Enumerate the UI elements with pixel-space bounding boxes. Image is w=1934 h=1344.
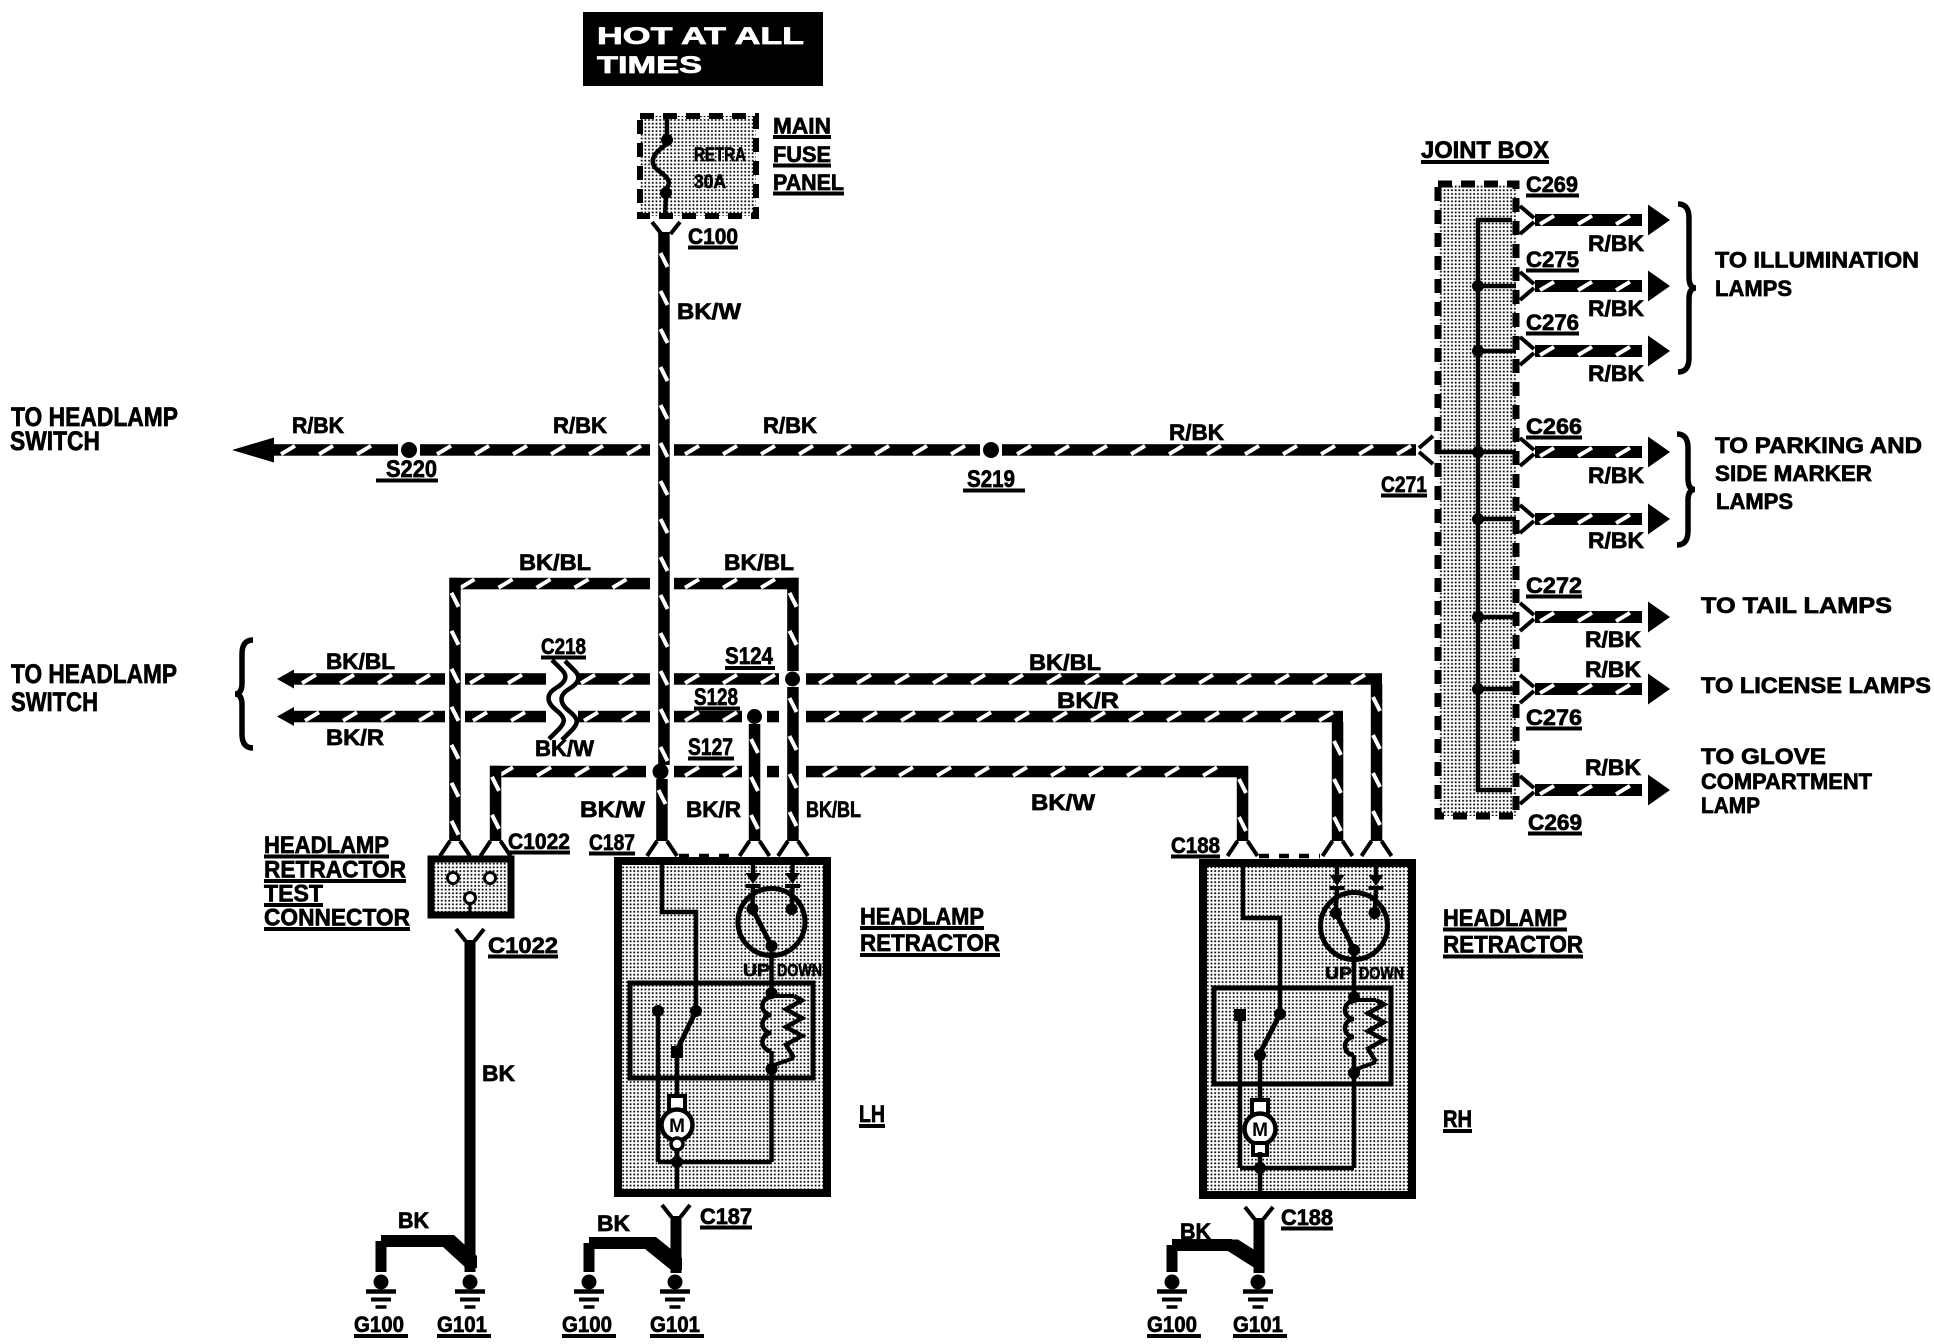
fuse label RETRA 30A text (694, 145, 746, 193)
label BK/R (arrow) (326, 725, 384, 750)
brace illumination (1678, 204, 1696, 372)
wire BK/R row seg2 (465, 711, 546, 723)
RH relay resistor (1348, 1000, 1384, 1079)
RH internal feed wire (1243, 867, 1280, 1014)
svg-text:BK: BK (1180, 1219, 1211, 1244)
LH relay box (630, 983, 813, 1078)
LH motor M (662, 1096, 693, 1150)
label R/BK 1 (292, 413, 344, 438)
wire BK/BL row seg3 (578, 673, 650, 685)
label BK (test connector wire) (482, 1061, 515, 1086)
svg-text:BK: BK (597, 1211, 630, 1236)
LH bottom wire loop (658, 1066, 772, 1168)
wire BK/BL row seg4 (674, 673, 779, 685)
RH wire left contact down (1238, 1021, 1243, 1168)
svg-text:TO TAIL LAMPS: TO TAIL LAMPS (1701, 593, 1892, 618)
wire BK/W vertical to C188 (1237, 766, 1249, 841)
svg-text:R/BK: R/BK (1588, 361, 1644, 386)
label BK/W (mid) (580, 797, 645, 822)
test connector pins (448, 873, 496, 913)
label BK (LH chain) (597, 1211, 630, 1236)
svg-text:G100: G100 (562, 1312, 612, 1337)
svg-text:TO PARKING AND: TO PARKING AND (1715, 433, 1922, 458)
wire BK/BL left vertical (449, 578, 461, 841)
svg-text:BK/W: BK/W (1031, 790, 1095, 815)
RH wire switch to motor (1258, 1058, 1263, 1101)
RH bottom wire loop (1240, 1070, 1354, 1174)
svg-text:C1022: C1022 (488, 933, 558, 958)
label LH (859, 1101, 885, 1128)
svg-text:R/BK: R/BK (1588, 296, 1644, 321)
wire BK/BL right vertical upper (787, 578, 799, 671)
ground G100 (left chain) (366, 1275, 396, 1308)
wire BK/W row stub (767, 766, 779, 778)
wire BK jog to grounds (LH) (584, 1237, 683, 1272)
brace parking (1677, 434, 1695, 545)
junction S128 (747, 709, 762, 724)
wire BK/R long to RH (806, 711, 1343, 723)
svg-text:R/BK: R/BK (1585, 657, 1641, 682)
RH diode 2 (1369, 867, 1384, 888)
svg-text:RETRA: RETRA (694, 145, 746, 166)
svg-text:C188: C188 (1171, 833, 1220, 858)
svg-text:TO ILLUMINATION: TO ILLUMINATION (1715, 248, 1919, 273)
label BK (RH chain) (1180, 1219, 1211, 1244)
svg-text:BK/R: BK/R (326, 725, 384, 750)
svg-text:C269: C269 (1526, 172, 1578, 197)
label C187 (bottom) (700, 1204, 752, 1229)
wire R/BK segment 2 (420, 444, 650, 456)
label C269 (bottom) (1528, 810, 1582, 835)
LH relay resistor (766, 996, 803, 1075)
svg-text:BK: BK (398, 1208, 429, 1233)
label R/BK 4 (1169, 420, 1224, 445)
label BK/W (fuse wire) (677, 299, 741, 324)
svg-text:R/BK: R/BK (1588, 231, 1644, 256)
label C276 (lower) (1526, 705, 1582, 730)
label R/BK 3 (763, 413, 817, 438)
svg-text:HOT AT ALL: HOT AT ALL (597, 23, 804, 50)
svg-text:TIMES: TIMES (597, 52, 702, 79)
svg-text:BK/W: BK/W (677, 299, 741, 324)
LH diode 1 (746, 865, 761, 886)
label HEADLAMP RETRACTOR (RH) (1443, 905, 1583, 959)
label BK/BL (top left) (519, 550, 591, 575)
wire R/BK segment 4 (1002, 444, 1416, 456)
RH retractor box (1203, 863, 1412, 1195)
label G100 (RH chain) (1147, 1312, 1201, 1337)
label RH (1443, 1106, 1472, 1133)
wire BK/W row seg2 (674, 766, 742, 778)
label R/BK branch2 (1588, 296, 1644, 321)
label R/BK branch1 (1588, 231, 1644, 256)
label G100 (LH chain) (562, 1312, 616, 1337)
connector C1022 flares (440, 841, 511, 856)
wire BK/R row seg3 (578, 711, 650, 723)
label MAIN FUSE PANEL (773, 114, 844, 196)
wire BK/R vertical to C188 (1332, 722, 1344, 841)
svg-text:R/BK: R/BK (1585, 627, 1641, 652)
wire BK jog to grounds (RH) (1167, 1239, 1265, 1272)
label R/BK branch3 (1588, 361, 1644, 386)
wire R/BK segment 3 (674, 444, 980, 456)
svg-text:M: M (669, 1116, 685, 1137)
svg-text:LAMP: LAMP (1701, 793, 1760, 818)
branch arrow C276 (1520, 336, 1670, 367)
label C100 (688, 224, 738, 249)
wire BK/R row seg1 (293, 711, 445, 723)
svg-text:BK/BL: BK/BL (724, 550, 794, 575)
svg-text:BK: BK (482, 1061, 515, 1086)
LH changeover switch circle (738, 887, 805, 993)
LH internal feed wire (662, 865, 696, 1011)
joint box (1438, 184, 1516, 816)
label TO ILLUMINATION LAMPS (1715, 248, 1919, 302)
corner BK/W left (490, 766, 502, 841)
label G100 (left chain) (354, 1312, 408, 1337)
svg-text:UP: UP (743, 960, 770, 980)
svg-text:G101: G101 (1233, 1312, 1283, 1337)
RH label UP DOWN (1325, 963, 1404, 983)
label R/BK branch5 (1588, 528, 1644, 553)
svg-text:C269: C269 (1528, 810, 1582, 835)
svg-text:FUSE: FUSE (773, 142, 831, 167)
label TO TAIL LAMPS (1701, 593, 1892, 618)
ground G100 (LH chain) (574, 1275, 604, 1308)
svg-text:PANEL: PANEL (773, 170, 844, 195)
label C276 (1526, 310, 1579, 335)
svg-text:C276: C276 (1526, 310, 1579, 335)
label TO LICENSE LAMPS (1701, 673, 1931, 698)
svg-text:R/BK: R/BK (1585, 755, 1641, 780)
svg-text:C276: C276 (1526, 705, 1582, 730)
wire R/BK segment 1 (272, 444, 398, 456)
label R/BK branch7 (1585, 657, 1641, 682)
label S219 (963, 466, 1025, 493)
label C271 (1381, 472, 1427, 497)
junction S219 (983, 442, 999, 458)
branch arrow C272 (1520, 602, 1670, 633)
svg-text:LAMPS: LAMPS (1715, 276, 1792, 301)
ground G100 (RH chain) (1157, 1275, 1187, 1308)
RH relay box (1214, 988, 1391, 1084)
RH relay switch (1234, 1008, 1286, 1061)
label TO GLOVE COMPARTMENT LAMP (1701, 744, 1873, 818)
label R/BK branch8 (1585, 755, 1641, 780)
LH relay switch (652, 1005, 702, 1058)
svg-text:RETRACTOR: RETRACTOR (1443, 932, 1583, 959)
svg-text:R/BK: R/BK (1169, 420, 1224, 445)
branch arrow license (1520, 674, 1670, 705)
wire BK/R row seg4 (674, 711, 742, 723)
wire BK/BL row seg2 (465, 673, 546, 685)
arrow BK/BL to headlamp switch (277, 670, 294, 689)
connector C188 flares (1228, 841, 1392, 856)
ground G101 (RH chain) (1243, 1275, 1273, 1308)
label S127 (688, 734, 734, 761)
label TO HEADLAMP SWITCH (top left) (10, 402, 178, 456)
label TO PARKING AND SIDE MARKER LAMPS (1715, 433, 1922, 514)
LH exit wire (675, 1162, 680, 1193)
wire BK/R below S128 to C187 (749, 724, 761, 841)
wire BK/BL vertical to C188 (1371, 684, 1383, 841)
svg-text:C272: C272 (1526, 573, 1582, 598)
connector C100 (652, 222, 680, 234)
label C1022 (bottom) (488, 933, 558, 958)
svg-text:M: M (1252, 1120, 1268, 1141)
svg-text:30A: 30A (694, 172, 726, 193)
LH wire left contact down (656, 1015, 661, 1162)
RH diode 1 (1330, 867, 1345, 888)
label S220 (376, 456, 438, 483)
svg-text:BK/W: BK/W (580, 797, 645, 822)
label BK/R (long wire) (1057, 688, 1119, 713)
branch arrow parking2 (1520, 504, 1670, 535)
svg-text:R/BK: R/BK (763, 413, 817, 438)
svg-text:DOWN: DOWN (777, 960, 822, 980)
brace left (headlamp switch) (235, 640, 253, 748)
connector C218 squiggle (549, 660, 579, 740)
branch arrow C269 (1520, 205, 1670, 236)
svg-text:BK/BL: BK/BL (519, 550, 591, 575)
svg-text:LH: LH (859, 1101, 885, 1128)
svg-text:R/BK: R/BK (292, 413, 344, 438)
svg-text:G100: G100 (354, 1312, 404, 1337)
label R/BK 2 (553, 413, 607, 438)
joint box junction dots (1472, 280, 1484, 695)
joint box internal bus (1478, 220, 1512, 790)
fuse RETRA 30A (653, 116, 673, 216)
LH relay coil (763, 987, 778, 1064)
label C187 (top) (589, 830, 635, 855)
LH label UP DOWN (743, 960, 822, 980)
connector C187 below box (662, 1205, 690, 1273)
junction S124 (785, 672, 800, 687)
wire BK/BL top row right (674, 578, 799, 590)
wire BK/BL long to RH (806, 673, 1382, 685)
label TO HEADLAMP SWITCH (middle left) (11, 659, 177, 717)
junction S220 (401, 442, 417, 458)
header plate HOT AT ALL TIMES (583, 12, 823, 86)
label HEADLAMP RETRACTOR (LH) (860, 904, 1000, 958)
svg-text:TO LICENSE LAMPS: TO LICENSE LAMPS (1701, 673, 1931, 698)
svg-text:JOINT BOX: JOINT BOX (1421, 137, 1549, 164)
wire BK/W vertical from fuse panel (658, 232, 670, 765)
svg-text:LAMPS: LAMPS (1716, 489, 1793, 514)
LH diode 2 (785, 865, 800, 886)
test connector box (431, 859, 511, 915)
junction S127 (653, 764, 669, 780)
joint box branch lines (1436, 286, 1516, 689)
label BK (left chain) (398, 1208, 429, 1233)
label C218 (541, 634, 586, 659)
label C188 (bottom) (1281, 1205, 1333, 1230)
svg-text:DOWN: DOWN (1359, 963, 1404, 983)
label G101 (RH chain) (1233, 1312, 1287, 1337)
ground G101 (left chain) (455, 1275, 485, 1308)
RH changeover switch circle (1321, 889, 1388, 997)
arrow to headlamp switch (left) (232, 438, 274, 463)
svg-text:BK/BL: BK/BL (806, 797, 861, 822)
label R/BK branch6 (1585, 627, 1641, 652)
LH wire motor to node (675, 1148, 680, 1162)
svg-text:C1022: C1022 (508, 829, 570, 854)
svg-text:R/BK: R/BK (553, 413, 607, 438)
label C269 (top) (1526, 172, 1579, 197)
RH exit wire (1258, 1168, 1263, 1195)
connector C271 fan (1419, 436, 1433, 464)
svg-text:C266: C266 (1526, 414, 1582, 439)
svg-text:C271: C271 (1381, 472, 1427, 497)
branch arrow C275 (1520, 271, 1670, 302)
label BK/BL (arrow) (326, 649, 395, 674)
svg-text:TO GLOVE: TO GLOVE (1701, 744, 1826, 769)
label BK/BL (long wire) (1029, 650, 1101, 675)
svg-text:G100: G100 (1147, 1312, 1197, 1337)
svg-text:C188: C188 (1281, 1205, 1333, 1230)
svg-text:BK/W: BK/W (535, 736, 594, 761)
wire BK/BL below S124 to C187 (787, 687, 799, 841)
svg-text:C218: C218 (541, 634, 586, 659)
label G101 (LH chain) (650, 1312, 704, 1337)
svg-text:RH: RH (1443, 1106, 1472, 1133)
svg-text:C100: C100 (688, 224, 738, 249)
label BK/BL (mid) (806, 797, 861, 822)
svg-text:UP: UP (1325, 963, 1352, 983)
label S124 (725, 643, 775, 670)
label G101 (left chain) (437, 1312, 491, 1337)
label JOINT BOX (1421, 137, 1549, 164)
branch arrow C266 (1520, 437, 1670, 468)
wire BK/BL row seg1 (293, 673, 445, 685)
svg-text:BK/BL: BK/BL (326, 649, 395, 674)
label R/BK branch4 (1588, 463, 1644, 488)
svg-text:SIDE MARKER: SIDE MARKER (1715, 461, 1872, 486)
LH wire switch to motor (675, 1058, 680, 1097)
label C275 (1526, 247, 1579, 272)
label BK/W (long wire) (1031, 790, 1095, 815)
svg-text:R/BK: R/BK (1588, 463, 1644, 488)
wire BK/BL top row left (450, 578, 651, 590)
svg-text:MAIN: MAIN (773, 114, 831, 139)
label C1022 (top) (508, 829, 570, 854)
wire BK/R row stub (767, 711, 779, 723)
wire BK/W row seg1 (490, 766, 646, 778)
label BK/R (mid) (686, 797, 741, 822)
svg-text:BK/R: BK/R (1057, 688, 1119, 713)
label HEADLAMP RETRACTOR TEST CONNECTOR (264, 832, 410, 932)
svg-text:SWITCH: SWITCH (11, 687, 98, 717)
branch arrow glove (1520, 775, 1670, 806)
svg-text:BK/BL: BK/BL (1029, 650, 1101, 675)
wire BK jog to G100 (left chain) (376, 1235, 478, 1272)
LH retractor box (618, 861, 827, 1193)
connector C188 below box (1245, 1207, 1273, 1273)
RH relay coil (1345, 991, 1360, 1068)
connector C1022 below box (456, 929, 484, 941)
connector C187 flares (647, 841, 808, 856)
RH motor M (1245, 1100, 1276, 1155)
svg-text:G101: G101 (437, 1312, 487, 1337)
label BK/BL (top right) (724, 550, 794, 575)
ground G101 (LH chain) (660, 1275, 690, 1308)
svg-text:BK/R: BK/R (686, 797, 741, 822)
label BK/W (row left) (535, 736, 594, 761)
label C272 (1526, 573, 1582, 598)
label S128 (694, 684, 740, 711)
label C266 (1526, 414, 1582, 439)
svg-text:R/BK: R/BK (1588, 528, 1644, 553)
svg-text:C187: C187 (700, 1204, 752, 1229)
svg-text:COMPARTMENT: COMPARTMENT (1701, 769, 1873, 794)
svg-text:G101: G101 (650, 1312, 700, 1337)
svg-text:SWITCH: SWITCH (10, 426, 100, 456)
svg-text:RETRACTOR: RETRACTOR (860, 930, 1000, 957)
label C188 (top) (1171, 833, 1220, 858)
RH wire motor to node (1258, 1152, 1263, 1168)
svg-text:TO HEADLAMP: TO HEADLAMP (11, 659, 177, 689)
svg-text:C275: C275 (1526, 247, 1579, 272)
wire BK from test connector (465, 940, 476, 1272)
main fuse panel box (640, 116, 756, 216)
wire BK/W below S127 to C187 (656, 779, 668, 841)
wire BK/W long to RH (806, 766, 1248, 778)
arrow BK/R to headlamp switch (277, 707, 294, 726)
svg-text:S124: S124 (725, 643, 774, 670)
svg-text:C187: C187 (589, 830, 635, 855)
